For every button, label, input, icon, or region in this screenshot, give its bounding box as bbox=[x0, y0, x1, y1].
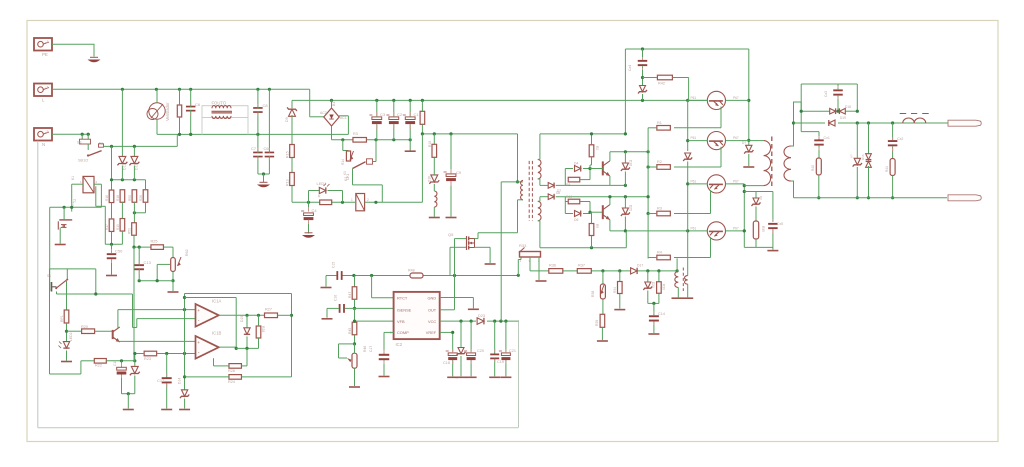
wire T2 drain rail bbox=[50, 206, 102, 208]
node L junctions bbox=[121, 88, 124, 91]
svg-text:R23: R23 bbox=[144, 357, 151, 361]
svg-text:P61: P61 bbox=[691, 180, 697, 184]
ground L aux bbox=[429, 217, 440, 219]
capacitor C15 bbox=[336, 271, 338, 280]
wire R26 leads bbox=[213, 358, 215, 366]
resistor R26 bbox=[229, 364, 242, 369]
diode D23 bbox=[477, 318, 484, 325]
wire R13 down bbox=[291, 186, 293, 203]
ground R46 bbox=[349, 386, 360, 388]
trimmer R46 bbox=[352, 353, 357, 368]
wire C12 gnd bbox=[166, 383, 168, 409]
svg-text:C14: C14 bbox=[658, 312, 665, 316]
wire source left riser bbox=[449, 247, 451, 275]
ground C14 bbox=[648, 333, 659, 335]
resistor R15 bbox=[290, 145, 295, 158]
svg-text:C7: C7 bbox=[251, 146, 257, 151]
svg-text:R62: R62 bbox=[185, 249, 189, 256]
svg-text:R22: R22 bbox=[95, 364, 102, 368]
capacitor C20 bbox=[470, 321, 472, 352]
inductor L2 bbox=[903, 118, 926, 123]
wire snubber bottom bbox=[744, 246, 773, 248]
wire VREF to C18 bbox=[440, 331, 453, 333]
svg-text:-: - bbox=[198, 350, 200, 356]
wire S2 to staircase bbox=[50, 268, 96, 270]
wire R33 pin2 gnd bbox=[538, 257, 540, 280]
svg-text:P67: P67 bbox=[733, 227, 739, 231]
connector X3 N bbox=[34, 128, 52, 141]
wire R1o left bbox=[648, 127, 657, 129]
wire wiper row bbox=[139, 280, 173, 282]
capacitor C3 bbox=[372, 117, 382, 120]
svg-text:C8: C8 bbox=[263, 103, 269, 108]
svg-text:C16: C16 bbox=[334, 295, 338, 301]
svg-text:R25: R25 bbox=[151, 240, 158, 244]
wire C9 leads bbox=[450, 134, 452, 174]
wire Cx4 bottom bbox=[642, 66, 644, 85]
svg-text:Q5: Q5 bbox=[448, 232, 454, 237]
wire R28 leads bbox=[258, 315, 260, 326]
capacitor C6b bbox=[265, 152, 275, 154]
capacitor Cx3 bbox=[837, 84, 839, 89]
ground R62 bbox=[168, 291, 179, 293]
svg-text:-: - bbox=[198, 318, 200, 324]
ground C20 bbox=[466, 376, 477, 378]
wire aux rail left bbox=[422, 133, 517, 135]
svg-text:C4: C4 bbox=[312, 208, 318, 213]
capacitor C13 bbox=[134, 264, 144, 266]
ground Q5 source bbox=[485, 263, 496, 265]
wire sense line 275 bbox=[342, 275, 519, 277]
wire R25 to R62 bbox=[164, 246, 174, 248]
wire return riser right bbox=[518, 320, 520, 428]
wire C11 D12 join bbox=[122, 393, 135, 395]
svg-text:D20: D20 bbox=[629, 205, 633, 211]
svg-text:VFB: VFB bbox=[397, 319, 405, 324]
svg-text:P67: P67 bbox=[733, 136, 739, 140]
svg-text:C6: C6 bbox=[264, 146, 270, 151]
transistor Q8 bbox=[112, 330, 114, 339]
svg-text:P61: P61 bbox=[691, 96, 697, 100]
wire VCC feed riser bbox=[500, 182, 502, 321]
capacitor C12 bbox=[166, 354, 168, 378]
wire R2o left bbox=[648, 166, 657, 168]
wire R50 bottom bbox=[133, 202, 135, 223]
resistor R3o bbox=[657, 211, 671, 216]
wire collector rail bbox=[748, 49, 750, 145]
lug output minus bbox=[948, 195, 981, 201]
wire diode row 1 bbox=[801, 110, 830, 112]
ground C17 bbox=[379, 376, 390, 378]
resistor R39 bbox=[600, 314, 605, 327]
svg-text:C11: C11 bbox=[113, 360, 117, 366]
wire R23 to IC1B bbox=[157, 353, 196, 355]
svg-text:R47: R47 bbox=[348, 292, 352, 298]
resistor R42 bbox=[657, 75, 672, 80]
svg-text:Cx4: Cx4 bbox=[628, 65, 632, 71]
wire DC+ rail bbox=[292, 99, 707, 101]
svg-text:R18: R18 bbox=[116, 195, 120, 201]
diode D9 bbox=[289, 109, 296, 116]
capacitor Cx1 bbox=[814, 139, 824, 141]
wire Q3 base bbox=[688, 183, 708, 185]
resistor R1o bbox=[657, 126, 671, 131]
wire D19 gnd bbox=[748, 154, 750, 166]
wire FOUTO right drop bbox=[247, 118, 249, 135]
IC2 box bbox=[394, 292, 440, 339]
wire W2 bottom lead bbox=[791, 181, 794, 198]
wire R46 loop bbox=[339, 343, 355, 345]
diode pair D30 bowtie bbox=[868, 123, 870, 154]
resistor R36 bbox=[549, 269, 563, 274]
svg-text:D14: D14 bbox=[178, 378, 182, 384]
cap pin leads overlay bbox=[376, 112, 378, 116]
wire C2 leads bbox=[393, 100, 395, 117]
capacitor C4 bbox=[308, 202, 310, 211]
resistor R22 bbox=[94, 359, 106, 364]
svg-text:IC1A: IC1A bbox=[212, 299, 222, 304]
diode D17 bbox=[631, 268, 638, 274]
ground C4 bbox=[302, 235, 315, 238]
wire D21 bottom bbox=[647, 291, 649, 304]
capacitor C19 bbox=[494, 321, 496, 354]
svg-text:VREF: VREF bbox=[426, 330, 437, 335]
svg-text:R37: R37 bbox=[578, 264, 585, 268]
svg-text:R1: R1 bbox=[657, 121, 662, 125]
wire upper emitter rail bbox=[540, 184, 548, 186]
svg-text:ISENSE: ISENSE bbox=[397, 308, 412, 313]
wire aux R4 row link bbox=[676, 258, 678, 271]
connector X1 PE bbox=[34, 38, 52, 51]
capacitor C11 bbox=[121, 361, 123, 368]
switch S2 bbox=[51, 282, 53, 292]
wire Q8 collector to IC1A bbox=[118, 309, 196, 311]
svg-text:P67: P67 bbox=[733, 96, 739, 100]
svg-text:C6: C6 bbox=[195, 102, 201, 107]
diode D16 bbox=[431, 175, 438, 182]
wire VFB stub bbox=[355, 320, 394, 322]
resistor R17 bbox=[109, 219, 114, 232]
svg-text:IC1B: IC1B bbox=[212, 331, 222, 336]
svg-text:N: N bbox=[42, 142, 45, 147]
wire Q1 collector bbox=[726, 99, 749, 101]
wire T2 drain bbox=[63, 207, 65, 220]
fan M1 Ventilador bbox=[149, 103, 165, 119]
diode D11 bbox=[121, 89, 123, 157]
svg-text:C15: C15 bbox=[332, 262, 336, 268]
wire R35s bottom bbox=[755, 239, 757, 247]
svg-text:D16: D16 bbox=[861, 154, 865, 160]
fuse F1 bbox=[81, 134, 83, 139]
output transformer core bbox=[771, 137, 773, 189]
transformer T3 right bbox=[685, 276, 688, 285]
resistor R4o bbox=[657, 255, 671, 260]
wire RP1 bottom bbox=[66, 323, 68, 342]
svg-text:B1: B1 bbox=[332, 102, 336, 106]
svg-text:R13: R13 bbox=[286, 179, 290, 186]
wire fan leads bbox=[156, 89, 158, 103]
diode D15 bbox=[246, 315, 248, 328]
svg-text:R26: R26 bbox=[228, 369, 235, 373]
svg-text:D4: D4 bbox=[574, 162, 578, 166]
opamp IC1A bbox=[196, 304, 219, 327]
wire driver upper split bbox=[564, 169, 566, 186]
wire node row 244 bbox=[105, 243, 122, 245]
ground C15 bbox=[321, 287, 332, 289]
wire IC1A out bbox=[219, 314, 264, 316]
svg-text:1: 1 bbox=[351, 198, 353, 202]
wire R39 gnd bbox=[601, 327, 603, 340]
svg-text:D23: D23 bbox=[478, 314, 485, 318]
wire R9 bottom riser bbox=[625, 231, 627, 248]
wire R42 leads bbox=[643, 77, 658, 79]
svg-text:R34: R34 bbox=[613, 287, 617, 293]
wire R45 bottom bbox=[354, 335, 356, 344]
capacitor Cx4 bbox=[642, 49, 644, 60]
svg-text:D7: D7 bbox=[557, 189, 561, 193]
wire GND pin bbox=[440, 297, 474, 299]
wire C4 down bbox=[308, 220, 310, 233]
svg-text:C18: C18 bbox=[443, 361, 450, 365]
wire K1 pin2 bbox=[365, 201, 423, 203]
wire R22 left riser bbox=[81, 360, 94, 362]
ground LED2 bbox=[61, 361, 72, 363]
wire divider top link bbox=[112, 179, 146, 181]
zener D25 base rail bbox=[685, 153, 691, 159]
wire D9 top bbox=[291, 100, 293, 108]
wire minus rail bbox=[332, 139, 354, 141]
svg-text:P61: P61 bbox=[691, 136, 697, 140]
relay coil K1b bbox=[83, 176, 94, 192]
inductor L aux bbox=[434, 191, 437, 207]
wire W1 bottom lead bbox=[744, 185, 763, 187]
resistor R16 bbox=[109, 190, 114, 203]
resistor R40 bbox=[816, 158, 821, 175]
svg-text:D13: D13 bbox=[135, 164, 139, 170]
wire RTCT path bbox=[371, 276, 373, 298]
wire R46 leads bbox=[354, 344, 356, 353]
svg-text:Cx1: Cx1 bbox=[824, 136, 830, 140]
wire lower collector rail bbox=[743, 184, 745, 248]
wire B+ riser left bbox=[624, 49, 626, 134]
ground Cx5 bbox=[767, 250, 778, 252]
wire S-handle drop bbox=[49, 207, 51, 291]
wire D14 gnd bbox=[184, 399, 186, 409]
wire R42 drop bbox=[688, 78, 690, 101]
mosfet Q5 bbox=[466, 236, 468, 250]
wire R62 bottom bbox=[172, 272, 174, 281]
wire LED2 gnd bbox=[66, 351, 68, 361]
wire W2 top lead bbox=[791, 102, 801, 146]
svg-text:P61: P61 bbox=[691, 227, 697, 231]
svg-text:R42: R42 bbox=[658, 82, 665, 86]
ground C12 bbox=[161, 409, 172, 411]
svg-text:R10: R10 bbox=[566, 195, 572, 199]
resistor Rfan bbox=[177, 105, 181, 117]
capacitor C7 bbox=[253, 152, 263, 154]
svg-text:R2: R2 bbox=[657, 160, 662, 164]
wire Q3 collector bbox=[726, 183, 745, 185]
diode D8 bbox=[540, 196, 548, 198]
wire C15 left gnd bbox=[326, 275, 337, 277]
svg-text:R45: R45 bbox=[348, 328, 352, 334]
resistor R50 bbox=[132, 190, 137, 203]
ground T2 bbox=[55, 244, 66, 246]
wire R40 bottom bbox=[818, 175, 820, 198]
wire LED1 right bbox=[328, 190, 343, 192]
wire D9 to R15 bbox=[291, 115, 293, 145]
svg-text:SB1/2: SB1/2 bbox=[78, 159, 88, 163]
wire R33 pin3 bbox=[529, 257, 531, 271]
svg-text:C50: C50 bbox=[115, 249, 123, 254]
switch SB1/2 lever bbox=[88, 151, 102, 156]
wire R25 row bbox=[134, 246, 153, 248]
svg-text:R15: R15 bbox=[286, 151, 290, 158]
wire Q3 emitter bbox=[710, 190, 712, 214]
svg-text:R28: R28 bbox=[261, 326, 265, 332]
capacitor Cx5 bbox=[772, 192, 774, 222]
svg-text:D6: D6 bbox=[574, 218, 578, 222]
capacitor C6 fan bbox=[186, 106, 196, 108]
svg-text:D15: D15 bbox=[240, 316, 244, 322]
resistor R13 bbox=[290, 173, 295, 186]
svg-text:RP1: RP1 bbox=[60, 315, 64, 322]
wire C1 leads bbox=[409, 100, 411, 117]
ground R39 bbox=[597, 340, 608, 342]
wire R30 bottom bbox=[658, 293, 660, 303]
wire Rfan leads bbox=[179, 89, 181, 105]
svg-text:D9: D9 bbox=[285, 117, 289, 122]
svg-text:R50: R50 bbox=[128, 195, 132, 201]
svg-text:D18: D18 bbox=[845, 105, 851, 109]
svg-text:LED2: LED2 bbox=[69, 332, 73, 341]
wire Q2 base bbox=[688, 140, 708, 142]
wire R15-R13 bbox=[291, 158, 293, 173]
transistor T2 mosfet bbox=[59, 219, 72, 221]
svg-text:R16: R16 bbox=[428, 141, 432, 147]
wire R1 leads bbox=[421, 100, 423, 111]
zener D22 bbox=[460, 321, 462, 348]
svg-text:D16: D16 bbox=[428, 176, 432, 182]
LED LED1 bbox=[319, 187, 326, 193]
resistor R25 bbox=[151, 245, 164, 250]
diode D14 bbox=[184, 390, 186, 393]
wire R22 node row bbox=[106, 360, 135, 362]
wire R19 bottom bbox=[121, 231, 123, 244]
wire Q6 collector bbox=[609, 152, 611, 161]
wire Q5 source row bbox=[450, 246, 466, 248]
diode D7 bbox=[548, 183, 554, 189]
svg-text:GND: GND bbox=[428, 295, 437, 300]
wire Q7 collector riser bbox=[609, 197, 611, 205]
svg-text:R51: R51 bbox=[128, 228, 132, 234]
wire Q2 emitter bbox=[720, 147, 722, 167]
capacitor C14 bbox=[653, 303, 655, 315]
wire N to fuse bbox=[52, 133, 90, 135]
ground C50 bbox=[106, 275, 117, 277]
wire riser to filter rail bbox=[176, 134, 178, 146]
svg-text:SB: SB bbox=[77, 141, 82, 145]
wire C18 gnd bbox=[452, 360, 454, 376]
wire drain line bbox=[478, 232, 518, 234]
wire gnd stub bbox=[409, 140, 411, 151]
capacitor C18 bbox=[448, 353, 457, 356]
wire contact riser bbox=[375, 140, 377, 159]
bridge rectifier B1 bbox=[324, 108, 339, 126]
svg-text:C13: C13 bbox=[144, 260, 152, 265]
transformer TR1 primary bbox=[518, 181, 524, 183]
svg-text:Cx2: Cx2 bbox=[897, 137, 903, 141]
wire T3 right gnd bbox=[687, 284, 689, 297]
wire D24 bottom bbox=[642, 94, 644, 100]
filter FOUTO box bbox=[202, 106, 248, 118]
resistor R48 bbox=[410, 273, 423, 278]
wire K1b pin1 bbox=[72, 183, 83, 185]
resistor R27 bbox=[265, 313, 278, 318]
ground C19 bbox=[489, 376, 500, 378]
zener D29 bbox=[856, 123, 858, 159]
wire Q6 base bbox=[590, 168, 603, 170]
svg-text:R40: R40 bbox=[811, 165, 815, 171]
ground D22 bbox=[456, 376, 467, 378]
LED LED2 bbox=[63, 342, 69, 349]
zener D21 bbox=[647, 271, 649, 283]
resistor R9 bbox=[589, 224, 594, 236]
wire bridge minus drop bbox=[331, 126, 333, 140]
wire D16-L bbox=[433, 184, 435, 191]
svg-text:AC2: AC2 bbox=[320, 111, 327, 115]
wire feed rail mid bbox=[647, 152, 649, 214]
wire R62 wiper bbox=[157, 263, 170, 265]
wire IC1B out loop bbox=[219, 346, 236, 348]
resistor R33 sense bbox=[520, 252, 541, 258]
resistor R35s bbox=[755, 207, 757, 222]
wire D15 R28 bottoms bbox=[236, 347, 258, 349]
wire rail top to R27 node bbox=[185, 293, 292, 295]
wire left link down bbox=[95, 186, 97, 206]
svg-text:T2: T2 bbox=[73, 199, 77, 203]
zener D19 bbox=[746, 145, 752, 152]
svg-text:R36: R36 bbox=[549, 264, 556, 268]
relay contact K1 lever bbox=[353, 162, 366, 169]
wire C14 gnd bbox=[653, 322, 655, 333]
resistor R30 bbox=[658, 271, 660, 282]
wire out top loop bbox=[801, 83, 857, 85]
wire C50 gnd bbox=[111, 260, 113, 275]
wire bottom return run bbox=[38, 427, 518, 429]
wire out bottom rail bbox=[794, 197, 948, 199]
ground C21 bbox=[500, 376, 511, 378]
transistor Q7 bbox=[602, 205, 604, 219]
diode D28 bbox=[829, 120, 835, 126]
wire contact pivot down bbox=[352, 169, 354, 185]
wire driver lower split bbox=[564, 197, 566, 214]
wire C6 leads bbox=[190, 89, 192, 107]
wire R4o left bbox=[648, 257, 657, 259]
wire ISENSE row bbox=[345, 307, 394, 309]
svg-text:C2: C2 bbox=[397, 112, 403, 117]
svg-text:VCC: VCC bbox=[428, 319, 436, 324]
wire D30 bottom bbox=[868, 166, 870, 198]
svg-text:R20: R20 bbox=[81, 325, 88, 329]
svg-text:C20: C20 bbox=[477, 349, 484, 353]
svg-text:R2: R2 bbox=[595, 146, 599, 150]
svg-text:Ventilador: Ventilador bbox=[165, 102, 170, 121]
svg-text:D18: D18 bbox=[629, 160, 633, 166]
svg-text:D21: D21 bbox=[651, 282, 655, 288]
wire aux to primary top bbox=[517, 134, 519, 182]
zener D18 bbox=[624, 152, 626, 163]
